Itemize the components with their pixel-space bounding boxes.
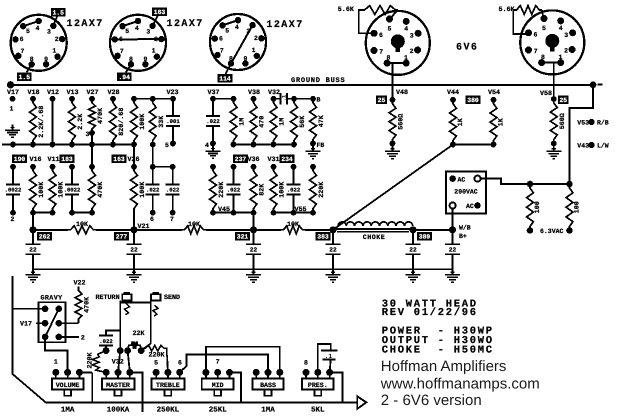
node V17 [10,96,16,102]
node row2 [231,164,237,170]
voltage label 383 [316,232,331,241]
svg-text:5: 5 [125,28,129,35]
value label 10K [188,221,201,229]
node row2 [10,164,16,170]
title 30 WATT HEAD [382,298,478,310]
value label 56K [299,115,307,128]
potentiometer MASTER body [102,379,135,396]
label SEND [164,294,180,302]
node label V58 [540,90,552,98]
svg-text:1MA: 1MA [61,407,75,415]
node 1M top [231,96,237,102]
node V27 [89,96,95,102]
value label 1M [279,118,287,126]
resistor 1M (V32) [270,99,277,145]
svg-text:183: 183 [61,156,73,163]
value label 220K [318,181,326,198]
svg-text:7: 7 [534,48,538,55]
voltage label 183 [60,154,75,163]
tube V1 pin 3 [50,23,56,29]
label PRES. [308,382,328,389]
tube V1 pin 8 [29,61,35,67]
svg-text:22: 22 [329,247,337,254]
node FB [310,141,316,147]
pot PRES terminal 3 [326,369,333,376]
node heater end 2 [566,227,573,234]
junction heater 1 [527,181,534,188]
jack SEND tip contact [153,305,158,316]
pot MASTER terminal 2 [115,369,122,376]
tube V5 pin 2 [569,46,576,53]
resistor 820/.68 (V28) [110,99,117,145]
svg-text:2: 2 [564,47,568,54]
svg-text:7: 7 [220,47,224,54]
node row2 bottom [271,210,277,216]
svg-text:8: 8 [541,54,545,61]
GRAVY pin left [42,334,49,341]
tube V5 pin number 8 [541,54,545,61]
tube V2 pin number 8 [129,56,133,63]
node V18 [30,96,36,102]
B+ rail segment 1 [33,229,68,231]
value label 22K [132,330,145,338]
wire V45 to .022 [213,212,234,214]
svg-text:4: 4 [135,25,139,32]
svg-text:V17: V17 [20,320,32,328]
text Hoffman Amplifiers [381,358,507,375]
capacitor .1 (V32 coupling) [274,93,295,104]
node row2 [150,164,156,170]
svg-text:560Ω: 560Ω [559,113,567,129]
capacitor 22uF (C 22uF d) [326,230,341,269]
junction 33K bottom [150,142,156,148]
svg-text:12AX7: 12AX7 [67,19,104,30]
capacitor .022 (master in) [99,331,113,350]
svg-text:163: 163 [154,9,166,16]
wire 220K to TREBLE wiper [166,360,169,372]
wire feedback to GRAVY [13,308,46,310]
ground (C 22uF c) [246,269,261,282]
tube V5 center key [545,34,559,52]
node row2 bottom [10,210,16,216]
node junction 33K top [150,96,156,102]
tube V3 pin number 6 [219,35,223,42]
svg-text:250KL: 250KL [157,406,180,415]
node V23 [170,96,176,102]
wire tube V2 pin8 to cathode voltage label [126,64,131,72]
node label V28 [107,89,119,97]
node row2 [89,164,95,170]
pot VOLUME terminal 3 [76,369,83,376]
svg-text:2: 2 [11,216,15,223]
svg-text:7: 7 [120,48,124,55]
wire tube V3 pin8 to voltage label [226,64,232,75]
wire pot VOLUME terminal 3 stub [78,372,80,378]
label L/W [597,143,609,150]
svg-text:4: 4 [404,26,408,33]
value label 100K [58,181,66,198]
resistor 220K (V45) [210,167,217,213]
voltage label 262 [37,232,52,241]
pin label 7 [170,216,174,223]
tube V5 pin 1 [557,59,564,66]
node label V21 [138,223,150,231]
svg-text:2: 2 [55,36,59,43]
svg-text:TREBLE: TREBLE [156,382,180,389]
node row2 bottom [231,210,237,216]
svg-text:.1: .1 [325,353,333,360]
svg-text:163: 163 [113,156,125,163]
svg-text:56K: 56K [299,115,307,128]
tube V3 pin 5 [219,22,225,28]
voltage label 389 [417,232,432,241]
resistor 100K (V16) [30,167,37,213]
tube V2 pin number 1 [152,48,156,55]
GRAVY pin left [42,320,49,327]
ground (FB) [306,146,321,159]
voltage label 190 [12,154,27,163]
value label 220K [218,181,226,198]
tube V1 pin 2 [59,36,65,42]
svg-text:6: 6 [20,36,24,43]
svg-text:4: 4 [36,25,40,32]
node row2 bottom [310,210,316,216]
pot MASTER terminal 3 [126,369,133,376]
voltage label 237 [233,154,248,163]
label GROUND BUSS [291,77,345,85]
wire heater nodes [530,183,570,185]
svg-text:8: 8 [30,56,34,63]
svg-text:6: 6 [150,216,154,223]
node row2 bottom [150,210,156,216]
ground buss left terminal [7,81,14,88]
pot MID terminal 2 [214,369,221,376]
wire feedback line left [13,276,46,402]
pin label 4 [205,142,209,149]
capacitor 22uF (C 22uF c) [246,230,261,269]
tube V5 pin number 5 [542,25,546,32]
svg-text:7: 7 [21,48,25,55]
wire pot MID terminal 2 stub [217,372,219,378]
ground (C 22uF b) [127,269,142,282]
wire rail to row2 node [152,145,154,167]
tube V1 pin 7 [15,53,21,59]
B+ rail segment 3 [206,229,281,231]
node V32 [271,96,277,102]
resistor 56K [291,99,298,145]
node label V27 [86,89,98,97]
svg-text:REV 01/22/96: REV 01/22/96 [382,307,478,319]
label MASTER [106,382,130,389]
node label V54 [488,89,500,97]
svg-text:114: 114 [219,76,231,83]
node label V37 [207,89,219,97]
pin label 2 [11,216,15,223]
value label 820/.68 [118,108,126,136]
svg-text:MASTER: MASTER [106,382,130,389]
pin label 8 (pres) [304,360,308,367]
capacitor .022 (pin6) [146,167,160,213]
value label 100 [534,201,542,213]
pin label 2 (gravy) [81,335,85,342]
svg-text:V37: V37 [207,89,219,97]
wire choke to B+ node [413,229,453,231]
label 6.3VAC [540,228,564,235]
pin label 5 (treble) [154,360,158,367]
pot TREBLE terminal 3 [176,369,183,376]
svg-text:220K: 220K [87,351,95,368]
tube V2 pin 1 [154,54,160,60]
wire jack ground bar [120,301,151,303]
node V44 [450,97,456,103]
ground (V17 pin1) [5,125,20,138]
junction mid rail [69,142,75,148]
voltage label 25 (V48) [376,96,387,105]
svg-text:R/B: R/B [597,120,609,127]
svg-text:V21: V21 [138,223,150,231]
svg-text:5: 5 [26,28,30,35]
pin label 5 [165,142,169,149]
wire 220K node to bottom rail [91,372,93,402]
wire V16 node to B+ rail [32,213,34,230]
svg-text:1: 1 [10,106,14,113]
label BASS [260,382,276,389]
tube V4 center key [391,34,405,52]
node row2 [170,164,176,170]
value label 10K [287,221,300,229]
wire pot VOLUME terminal 1 stub [55,372,57,378]
svg-text:820/.68: 820/.68 [118,108,126,136]
wire pot MASTER terminal 3 stub [129,372,131,378]
capacitor 22uF (C 22uF e) [406,230,421,269]
svg-text:100K: 100K [38,181,46,198]
node label V32 (top) [268,89,280,97]
svg-text:1: 1 [558,54,562,61]
tube V1 pin number 2 [55,36,59,43]
svg-text:5KL: 5KL [311,407,325,415]
rectifier box (power transformer secondary) [446,171,486,213]
svg-text:V22: V22 [73,279,85,287]
svg-text:AC: AC [466,203,474,210]
tube V3 pin number 8 [229,55,233,62]
wire pot MASTER terminal 2 stub [117,372,119,378]
pin label 1 (V17) [10,106,14,113]
svg-text:470K: 470K [97,181,105,198]
resistor 1K (V54) [490,100,497,145]
tube V2 pin 8 [128,61,134,67]
value label 470 [259,116,267,128]
junction mid rail right [291,142,297,148]
potentiometer PRES body [302,379,334,396]
wire tube V2 pin3 to plate voltage label [153,16,158,26]
svg-text:190: 190 [14,156,26,163]
resistor 100K (V23 plate) [131,99,138,145]
svg-text:100K: 100K [279,181,287,198]
node pin3 junction [89,130,95,136]
svg-text:5: 5 [542,25,546,32]
wire pot TREBLE terminal 2 stub [167,372,169,378]
svg-text:.94: .94 [118,74,130,81]
node V38 [251,96,257,102]
tube V5 pin number 7 [534,48,538,55]
svg-text:12AX7: 12AX7 [167,19,204,30]
tube V4 pin 3 [415,30,422,37]
resistor 220K (master grid) [92,351,106,373]
tube V1 pin number 7 [21,48,25,55]
tube V4 pin 7 [371,47,378,54]
svg-text:22: 22 [130,247,138,254]
resistor 5.6K (V5 grid) [514,6,542,15]
node label V18 [27,89,39,97]
value label 1K [498,117,506,126]
tube V1 pin 4 [36,18,42,24]
node row2 [310,164,316,170]
value label 1M [239,118,247,126]
node row2 bottom [69,210,75,216]
wire V44-V54 junction [453,144,494,146]
voltage label .94 (V2 cathode) [117,73,132,82]
wire 56K to node B [294,98,313,100]
rectifier AC terminal 2 [474,202,481,209]
node row2 bottom [170,210,176,216]
output arrow [357,396,366,409]
junction mid rail [110,142,116,148]
svg-text:9: 9 [143,56,147,63]
svg-text:1MA: 1MA [261,407,275,415]
junction screen node [450,142,456,148]
svg-text:V27: V27 [86,89,98,97]
node row2 [291,164,297,170]
ground buss wire [11,84,594,86]
svg-text:237: 237 [235,156,247,163]
junction B+ 277 (V21) [131,226,138,233]
capacitor .0022 (V16) [5,167,22,213]
label MID [212,382,224,389]
svg-text:PRES.: PRES. [308,382,328,389]
svg-text:.1: .1 [282,95,288,101]
junction mid rail right [271,142,277,148]
potentiometer VOLUME body [52,379,84,396]
pot PRES terminal 2 [314,369,321,376]
svg-text:470K: 470K [97,107,105,124]
tube V3 pin 8 [228,60,234,66]
svg-text:B+: B+ [459,233,467,240]
wire pot TREBLE terminal 1 stub [155,372,157,378]
wire tube V3 pin3 to pin8 [231,25,253,63]
svg-text:380: 380 [467,97,479,104]
junction choke in [330,226,337,233]
node V28 [110,96,116,102]
jack RETURN [122,292,131,301]
svg-text:V32: V32 [268,89,280,97]
tube V1 12AX7 envelope [11,15,67,71]
wire tube V1 pin3 to plate voltage label [53,16,57,26]
capacitor 22uF (C 22uF a) [26,230,41,269]
tube V3 pin number 3 [246,28,250,35]
value label 2.2K/.68 [38,106,46,138]
resistor 560 ohm (V58) [550,99,557,144]
value label 100KA [107,406,130,415]
ground (V48) [385,146,400,159]
resistor 470K (V22) [75,287,82,324]
label CHOKE [363,234,386,242]
svg-text:1: 1 [404,54,408,61]
node V48 [390,97,396,103]
label 6V6 [456,43,478,54]
jack SEND [151,292,160,301]
svg-text:Hoffman Amplifiers: Hoffman Amplifiers [381,358,507,375]
tube V4 pin number 1 [404,54,408,61]
wire preamp mid rail left [2,144,134,146]
node label V32 (master) [112,359,124,367]
tube V2 pin number 6 [119,36,123,43]
tube V3 pin 2 [258,35,264,41]
tube V5 pin number 6 [533,31,537,38]
svg-text:5: 5 [154,360,158,367]
node label V48 [396,89,408,97]
tube V3 pin number 2 [254,35,258,42]
value label 33K [158,115,166,128]
label 12AX7 (V3) [266,20,303,31]
value label 100K [279,181,287,198]
wire V37 to 1M [213,98,234,100]
resistor 100K (V26 plate) [131,167,138,213]
svg-text:W/B: W/B [459,225,471,232]
pin label 6 (treble) [178,360,182,367]
node V37 [210,96,216,102]
svg-text:33K: 33K [158,115,166,128]
node row2 [271,164,277,170]
ground buss right terminal (-) [590,81,597,88]
svg-text:470: 470 [259,116,267,128]
tube V5 pin 7 [525,47,532,54]
svg-text:9: 9 [44,56,48,63]
svg-text:47K: 47K [318,114,326,127]
wire pot PRES terminal 2 stub [317,372,319,378]
svg-text:2: 2 [254,35,258,42]
svg-text:1K: 1K [498,117,506,126]
resistor 1M (V37 grid) [230,99,237,145]
tube V2 pin 5 [119,23,125,29]
resistor 100 (heater 2) [566,184,573,231]
svg-text:1: 1 [52,48,56,55]
node row2 [69,164,75,170]
svg-text:3: 3 [564,32,568,39]
pin label 1 (volume) [54,359,58,366]
node label V38 [248,89,260,97]
svg-text:5: 5 [225,27,229,34]
node row2 bottom [89,210,95,216]
node label V43 [577,143,589,150]
tube V4 pin number 4 [404,26,408,33]
wire 100K bottoms [33,212,53,214]
node V58 [551,96,557,102]
pot BASS terminal 2 [265,369,272,376]
svg-text:.0022: .0022 [5,187,22,194]
wire V4 cathode down to node V48 [392,63,394,100]
svg-text:22: 22 [29,247,37,254]
svg-text:8: 8 [386,54,390,61]
tube V2 pin 6 [112,36,118,42]
value label 1MA [61,407,75,415]
wire .0022-470K bottoms [72,212,92,214]
wire RETURN jack down [119,303,121,351]
tube V2 pin 4 [135,18,141,24]
label AC (top) [458,176,466,183]
wire pot BASS terminal 3 stub [279,372,281,378]
junction heater 2 [566,181,573,188]
value label 47K [318,114,326,127]
